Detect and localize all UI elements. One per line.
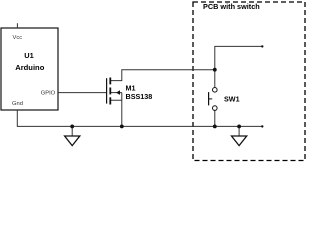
svg-text:Gnd: Gnd bbox=[12, 101, 23, 107]
svg-text:GPIO: GPIO bbox=[41, 91, 56, 97]
svg-text:Vcc: Vcc bbox=[13, 35, 23, 41]
svg-text:Arduino: Arduino bbox=[15, 63, 44, 72]
svg-text:PCB with switch: PCB with switch bbox=[203, 2, 260, 11]
svg-text:SW1: SW1 bbox=[224, 95, 240, 104]
svg-text:BSS138: BSS138 bbox=[126, 92, 153, 101]
svg-text:U1: U1 bbox=[24, 51, 33, 60]
